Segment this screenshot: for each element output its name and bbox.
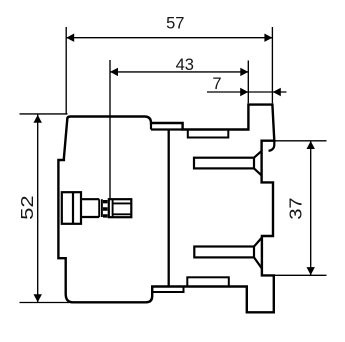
svg-text:43: 43 (176, 56, 194, 74)
dim 37 arrow down (307, 267, 315, 275)
svg-text:57: 57 (166, 15, 184, 33)
dim 57 arrow right (264, 34, 272, 42)
dim 52 arrow down (34, 294, 42, 302)
dim 52 extension top (20, 113, 68, 115)
screw head box (109, 199, 132, 217)
screw threads (103, 202, 108, 216)
svg-text:52: 52 (18, 195, 37, 220)
coil screw flange (62, 192, 81, 224)
bottom rib (152, 287, 183, 293)
bottom recess groove (187, 277, 229, 286)
snap hook (269, 141, 275, 151)
dim 7 arrow (outside left, pointing right) (240, 88, 248, 96)
top raised rib left edge (151, 123, 183, 130)
flange inner line (72, 192, 74, 224)
contactor body outline (58, 105, 274, 313)
upper terminal flare (254, 151, 262, 176)
screw stem (81, 199, 99, 217)
middle split line (168, 129, 170, 286)
dim 52 line (37, 115, 39, 303)
screw shank verticals (99, 199, 102, 217)
dim 37 line (310, 141, 312, 275)
svg-text:37: 37 (286, 198, 306, 220)
dim 57 line (66, 37, 272, 39)
dim 43 line (110, 71, 248, 73)
screw head inner lines (113, 199, 132, 217)
dim 37 extension bottom (274, 274, 326, 276)
dim 57 extension right (271, 27, 273, 103)
dim 57 extension left (65, 27, 67, 114)
dim 37 extension top (275, 140, 327, 142)
dim 43 arrow left (110, 68, 118, 76)
dim 7 line (207, 91, 287, 93)
dim 7 arrow (outside right, pointing left) (273, 88, 281, 96)
dim 57 arrow left (66, 34, 74, 42)
top recess groove (188, 130, 229, 138)
dim 43 extension left (109, 60, 111, 199)
dim 52 arrow up (34, 115, 42, 123)
svg-text:7: 7 (212, 75, 221, 93)
dim 43 extension right (247, 61, 249, 104)
lower terminal bar (194, 247, 254, 258)
dim 52 extension bottom (20, 302, 73, 304)
lower terminal flare (254, 238, 262, 269)
upper terminal bar (194, 158, 254, 169)
dim 43 arrow right (240, 68, 248, 76)
dim 37 arrow up (307, 141, 315, 149)
